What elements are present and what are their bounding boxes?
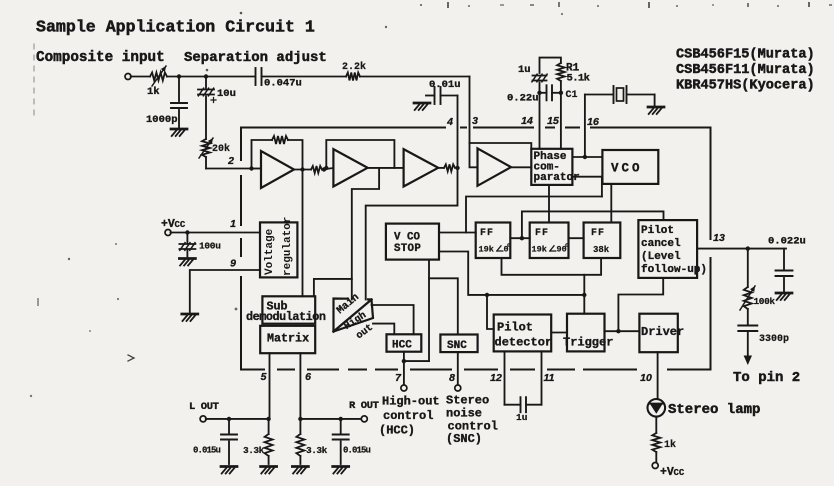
svg-text:16: 16 [587, 116, 599, 128]
svg-text:20k: 20k [212, 143, 230, 155]
node [185, 230, 189, 234]
wire to pin2 arrow [744, 333, 752, 366]
svg-text:+V: +V [660, 466, 674, 479]
svg-text:Pilot: Pilot [641, 225, 674, 237]
wire [322, 168, 333, 170]
wire amp2 out [368, 167, 404, 169]
wire [655, 417, 657, 433]
label Stereo lamp [668, 402, 760, 418]
capacitor 1000p [146, 77, 187, 128]
svg-text:Voltage: Voltage [264, 228, 276, 275]
wire pilot det pin12 [504, 351, 506, 404]
wire to SNC [429, 278, 458, 334]
wire to pin 2 [206, 157, 252, 169]
pin 15 [547, 115, 559, 127]
ground [171, 129, 187, 136]
wire [655, 452, 657, 463]
svg-text:0.015u: 0.015u [193, 446, 221, 456]
svg-text:R OUT: R OUT [349, 400, 379, 412]
svg-text:3.3k: 3.3k [243, 445, 265, 456]
svg-text:13: 13 [713, 232, 725, 244]
capacitor 0.015u (R) [333, 419, 371, 464]
svg-text:FF: FF [480, 228, 494, 239]
svg-text:19k: 19k [532, 245, 547, 255]
pilot detector block [494, 315, 552, 352]
pin 10 [640, 372, 652, 384]
pin 9 [230, 258, 236, 270]
label R OUT [349, 400, 379, 412]
ground [648, 107, 664, 114]
amp1 feedback loop [252, 136, 303, 169]
svg-text:100k: 100k [754, 296, 776, 307]
svg-text:0.022u: 0.022u [768, 236, 806, 248]
svg-text:C1: C1 [566, 90, 578, 101]
wire pin4 [457, 96, 459, 168]
svg-text:10u: 10u [217, 88, 236, 100]
pin 14 [521, 115, 533, 127]
wire [747, 309, 749, 324]
IC outline top edge [241, 127, 711, 129]
pin 8 [449, 372, 455, 384]
svg-text:detector: detector [495, 336, 553, 350]
wire [487, 295, 494, 329]
resistor 2.2k [342, 61, 366, 81]
svg-text:FF: FF [535, 228, 549, 239]
wire [262, 76, 347, 78]
HCC block [387, 334, 422, 351]
scan artifacts [30, 2, 832, 397]
svg-text:1u: 1u [516, 412, 528, 423]
wire [205, 97, 207, 140]
svg-text:Matrix: Matrix [267, 332, 309, 346]
wire bracket [540, 58, 561, 73]
ground [182, 314, 198, 321]
svg-text:follow-up): follow-up) [641, 264, 707, 276]
label L OUT [189, 401, 219, 413]
svg-text:HCC: HCC [392, 340, 412, 352]
svg-text:100u: 100u [199, 241, 221, 252]
wire [167, 76, 255, 78]
svg-text:2: 2 [227, 155, 234, 167]
wire VCO stop link [466, 197, 602, 233]
pin 2 [227, 155, 234, 167]
wire [539, 83, 541, 149]
op-amp A1 [261, 151, 294, 188]
resistor 3.3k (R) [296, 419, 327, 464]
pin 12 [490, 372, 502, 384]
node amp1 output [300, 167, 304, 171]
ground [179, 259, 195, 266]
svg-text:1u: 1u [518, 64, 531, 76]
svg-text:FF: FF [591, 228, 605, 239]
svg-text:Separation adjust: Separation adjust [184, 50, 327, 66]
wire main to HCC [372, 305, 414, 334]
FF bus [502, 258, 602, 275]
resonator part numbers [676, 48, 815, 94]
svg-text:10: 10 [640, 372, 652, 384]
title [36, 18, 315, 37]
wire [366, 168, 458, 300]
wire pin9 [190, 270, 260, 312]
label Separation adjust [184, 50, 327, 66]
wire pin13 [697, 248, 786, 250]
svg-text:V CO: V CO [394, 232, 420, 244]
svg-text:SNC: SNC [447, 340, 467, 352]
ground [776, 293, 792, 300]
svg-text:5.1k: 5.1k [567, 73, 590, 85]
svg-text:Composite input: Composite input [36, 50, 165, 66]
svg-text:8: 8 [449, 372, 455, 384]
label High-out control (HCC) [379, 395, 440, 438]
node [402, 359, 406, 363]
trigger block [563, 314, 613, 352]
capacitor 3300p [738, 326, 789, 346]
wire high-out to HCC [373, 324, 394, 335]
L OUT terminal [200, 416, 206, 422]
wire [572, 177, 602, 197]
ground [261, 467, 277, 474]
svg-text:15: 15 [547, 115, 559, 127]
svg-text:CC: CC [674, 468, 685, 478]
wire [360, 76, 470, 78]
wire [654, 95, 656, 106]
svg-text:90: 90 [557, 245, 567, 255]
wire pin16 [584, 95, 586, 158]
wire [131, 76, 150, 78]
svg-text:(SNC): (SNC) [446, 432, 482, 446]
wire VCOSTOP-FF1 [439, 232, 476, 234]
node [177, 74, 181, 78]
svg-text:STOP: STOP [394, 243, 421, 255]
svg-text:Sample Application Circuit 1: Sample Application Circuit 1 [36, 18, 315, 37]
svg-text:High-out: High-out [382, 395, 440, 409]
svg-text:11: 11 [544, 372, 555, 384]
capacitor 0.01u [426, 79, 461, 104]
svg-text:demodulation: demodulation [246, 310, 326, 324]
svg-text:3.3k: 3.3k [306, 445, 328, 456]
capacitor 0.015u (L) [193, 419, 237, 464]
node [520, 236, 524, 240]
wire [252, 169, 312, 170]
node [537, 91, 541, 95]
Vcc terminal [165, 230, 171, 236]
svg-text:14: 14 [521, 115, 533, 127]
wire FF2-FF3 [569, 237, 584, 239]
svg-text:control: control [383, 409, 433, 423]
pin 13 [713, 232, 725, 244]
svg-text:noise: noise [446, 407, 482, 421]
matrix block [260, 326, 315, 353]
svg-text:5: 5 [261, 371, 267, 383]
svg-text:1000p: 1000p [146, 114, 178, 126]
wire [314, 279, 352, 296]
svg-text:19k: 19k [479, 245, 494, 255]
driver block [639, 314, 684, 353]
svg-text:0.22u: 0.22u [507, 93, 539, 105]
svg-text:3: 3 [472, 115, 478, 127]
ground [333, 467, 349, 474]
wire [171, 232, 261, 234]
svg-text:To pin 2: To pin 2 [733, 370, 800, 386]
wire [604, 330, 639, 332]
pilot cancel block [638, 220, 707, 278]
op-amp A4 [478, 148, 512, 185]
wire to sub demod [352, 168, 379, 300]
wire FF1-FF2 [510, 237, 529, 239]
wire [439, 252, 584, 295]
amp2 feedback loop [326, 140, 394, 168]
pin 7 [395, 372, 402, 384]
coupling resistor [444, 164, 455, 171]
flip-flop FF2 19k 90deg [530, 223, 569, 259]
svg-text:CC: CC [175, 220, 186, 230]
wire matrix pin6 [299, 353, 301, 419]
pin8 terminal [455, 385, 461, 391]
flip-flop FF1 19k 0deg [476, 223, 511, 259]
node pin4 [455, 166, 459, 170]
node [322, 167, 326, 171]
node [204, 74, 208, 78]
phase comparator U-PC [531, 149, 579, 185]
pin 5 [261, 371, 267, 383]
resistor 3.3k (L) [243, 419, 273, 464]
label +Vcc [161, 218, 186, 231]
ground [292, 467, 308, 474]
VCO STOP block [386, 224, 439, 260]
pin 4 [446, 116, 453, 128]
label Stereo noise control (SNC) [446, 394, 498, 447]
wire [551, 332, 567, 334]
svg-text:6: 6 [305, 371, 311, 383]
IC outline left edge [240, 128, 242, 370]
svg-text:0.047u: 0.047u [264, 78, 302, 90]
node [582, 293, 586, 297]
svg-text:VCO: VCO [611, 162, 643, 176]
resistor 20k (variable) [199, 138, 230, 158]
capacitor 1u [518, 64, 547, 82]
label 0.22u [507, 93, 539, 105]
wire SNC pin8 [457, 352, 459, 385]
wire HCC pin7 [403, 352, 405, 385]
svg-text:(Level: (Level [641, 251, 681, 263]
node amp1 input [249, 166, 253, 170]
capacitor C1 [547, 85, 578, 101]
coupling resistor [311, 166, 322, 173]
voltage regulator block [260, 217, 297, 278]
label +Vcc [660, 466, 685, 479]
node amp2 input [324, 166, 328, 170]
ground [221, 467, 237, 474]
wire [300, 418, 361, 420]
svg-text:4: 4 [446, 116, 453, 128]
node [298, 417, 302, 421]
wire phase-VCO [572, 156, 602, 158]
wire pin3 to amp4 [470, 77, 478, 168]
svg-text:KBR457HS(Kyocera): KBR457HS(Kyocera) [676, 79, 815, 94]
capacitor 1u (pins 12-11) [505, 397, 542, 423]
R OUT terminal [361, 416, 367, 422]
svg-text:9: 9 [230, 258, 236, 270]
wire [522, 211, 664, 238]
wire [186, 250, 188, 257]
pin7 terminal [401, 385, 407, 391]
wire [438, 167, 444, 169]
svg-text:12: 12 [490, 372, 502, 384]
sub demodulation block [246, 296, 326, 324]
svg-text:Trigger: Trigger [563, 336, 613, 350]
capacitor 0.047u [256, 68, 302, 90]
label Composite input [36, 50, 165, 66]
svg-text:7: 7 [395, 372, 402, 384]
svg-text:L OUT: L OUT [189, 401, 219, 413]
resistor 100k (variable) [740, 286, 775, 310]
node [266, 417, 270, 421]
svg-text:1k: 1k [664, 439, 676, 451]
pin 11 [544, 372, 555, 384]
svg-text:Pilot: Pilot [497, 321, 533, 335]
svg-text:CSB456F15(Murata): CSB456F15(Murata) [676, 48, 815, 63]
op-amp A3 [404, 149, 439, 186]
wire amp4 top link [470, 143, 532, 149]
capacitor 100u (electrolytic) [179, 233, 221, 252]
label To pin 2 [733, 370, 800, 386]
svg-text:parator: parator [534, 172, 580, 184]
pin 1 [230, 218, 236, 230]
wire amp1out to sub demod [302, 170, 304, 297]
wire [206, 418, 269, 420]
svg-text:2.2k: 2.2k [342, 61, 366, 73]
crystal resonator [585, 86, 655, 103]
IC outline bottom edge [241, 369, 711, 371]
svg-text:Stereo lamp: Stereo lamp [668, 402, 760, 418]
svg-text:regulator: regulator [282, 217, 294, 276]
input terminal [125, 74, 131, 80]
svg-text:1: 1 [230, 218, 236, 230]
ground [414, 103, 430, 110]
node [583, 155, 587, 159]
wire [511, 166, 531, 168]
VCO block [602, 150, 658, 184]
capacitor 10u (electrolytic) [198, 77, 236, 103]
svg-text:CSB456F11(Murata): CSB456F11(Murata) [676, 63, 815, 78]
wire phase to FF2 [548, 185, 550, 223]
wire [540, 92, 561, 94]
svg-text:Driver: Driver [641, 325, 684, 339]
wire [560, 81, 562, 149]
svg-text:1k: 1k [147, 86, 160, 98]
svg-text:(HCC): (HCC) [379, 424, 415, 438]
node [559, 91, 563, 95]
pin 3 [472, 115, 478, 127]
svg-text:3300p: 3300p [759, 334, 789, 345]
op-amp A2 [333, 149, 367, 186]
node [227, 417, 231, 421]
wire to pilot cancel [618, 278, 663, 331]
wire VCO to FF3 [610, 184, 612, 223]
pin 6 [305, 371, 311, 383]
capacitor 0.022u [768, 236, 806, 292]
node [485, 293, 489, 297]
wire bus to trigger [583, 275, 585, 314]
wire driver pin10 [657, 352, 659, 399]
SNC block [440, 335, 477, 353]
wire VCOSTOP down [428, 260, 430, 362]
main/high-out switch [334, 292, 376, 343]
svg-text:38k: 38k [593, 245, 610, 255]
IC outline right edge [710, 128, 712, 370]
node [616, 329, 620, 333]
wire pilot det pin11 [541, 351, 543, 404]
resistor 1k (lamp) [652, 433, 676, 452]
wire [747, 249, 749, 287]
node [339, 417, 343, 421]
resistor R1 5.1k [557, 63, 590, 85]
svg-text:Stereo: Stereo [446, 394, 489, 408]
stereo lamp LED [648, 399, 666, 417]
pin 16 [587, 116, 599, 128]
wire matrix pin5 [269, 353, 271, 419]
flip-flop FF3 38k [584, 223, 621, 259]
svg-text:cancel: cancel [641, 238, 681, 250]
node [746, 246, 750, 250]
wire [404, 360, 429, 362]
svg-text:0.015u: 0.015u [343, 446, 371, 456]
resistor 1k (variable) [147, 66, 167, 98]
Vcc terminal [652, 463, 658, 469]
